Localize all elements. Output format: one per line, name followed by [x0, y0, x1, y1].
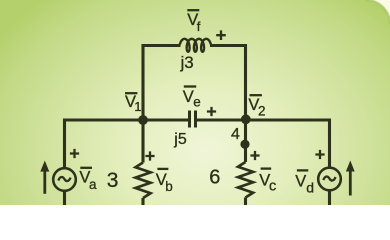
plus sign of Vd: [315, 150, 324, 159]
wire main rail left of capacitor: [65, 120, 189, 169]
svg-text:2: 2: [258, 104, 266, 119]
wire below Va: [63, 191, 66, 205]
overbar of V1: [125, 92, 137, 94]
wire top loop left vertical (V1 branch upper): [141, 44, 144, 120]
resistor 3 (Vb) zigzag: [136, 163, 151, 199]
arrow of source Vd: [346, 161, 355, 196]
wire below resistor 3: [141, 198, 144, 205]
capacitor Ce plate left: [188, 111, 191, 128]
source Va circle: [53, 168, 76, 191]
svg-text:4: 4: [231, 126, 240, 143]
tilde in Vd: [323, 176, 335, 180]
wire below resistor 6: [244, 198, 247, 206]
overbar of Vd: [297, 169, 308, 171]
plus sign of Vb: [145, 151, 154, 160]
svg-text:1: 1: [134, 99, 141, 114]
wire below Vd: [328, 190, 331, 205]
plus sign of Ve: [207, 107, 216, 116]
svg-text:a: a: [89, 177, 97, 192]
svg-text:j5: j5: [173, 131, 187, 148]
wire V2/node4 branch lower: [244, 120, 247, 162]
overbar of Vc: [261, 167, 272, 169]
inductor j3 coil: [180, 39, 211, 52]
node V2 junction dot: [241, 114, 251, 124]
capacitor Ce plate right: [194, 111, 197, 128]
svg-text:6: 6: [209, 166, 220, 188]
wire V1 branch lower: [141, 120, 144, 163]
svg-text:V: V: [295, 173, 306, 191]
wire top horizontal right segment: [210, 44, 247, 47]
corner arc rim: [366, 0, 390, 24]
overbar of Vb: [157, 168, 168, 170]
svg-text:f: f: [197, 19, 201, 34]
plus sign of Vf: [216, 30, 226, 40]
svg-text:d: d: [306, 179, 314, 195]
svg-text:c: c: [269, 179, 276, 195]
wire main rail right of capacitor: [197, 120, 330, 168]
wire top loop right vertical (V2 branch upper): [244, 44, 247, 120]
svg-text:V: V: [183, 88, 194, 106]
tilde in Va: [58, 177, 70, 181]
overbar of V2: [250, 94, 262, 96]
arrow of source Va: [40, 161, 49, 194]
overbar of Vf: [187, 9, 199, 11]
wire top horizontal left segment: [142, 44, 181, 47]
svg-text:j3: j3: [180, 53, 194, 72]
svg-text:3: 3: [107, 169, 119, 192]
svg-text:e: e: [193, 94, 201, 109]
overbar of Va: [80, 167, 92, 169]
node V1 junction dot: [138, 115, 148, 125]
svg-text:b: b: [165, 179, 173, 194]
plus sign of Vc: [250, 151, 259, 160]
node 4 junction dot: [240, 140, 249, 149]
source Vd circle: [318, 168, 341, 191]
overbar of Ve: [184, 85, 196, 87]
resistor 6 (Vc) zigzag: [238, 162, 253, 198]
plus sign of Va: [70, 149, 79, 158]
